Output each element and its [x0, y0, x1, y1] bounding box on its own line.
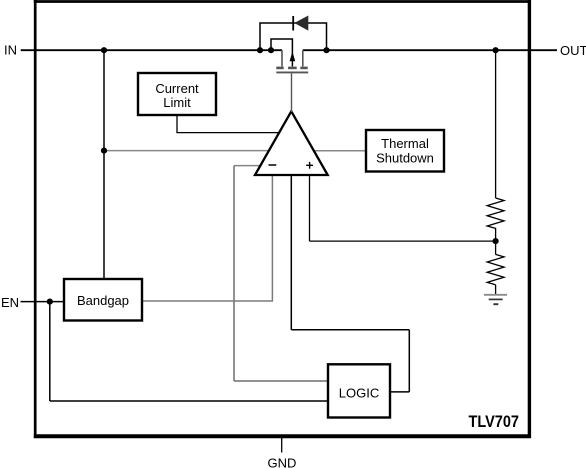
wire: EN lead into Bandgap left: [21, 301, 67, 303]
box: Current Limit: [138, 73, 216, 115]
svg-text:IN: IN: [4, 43, 17, 58]
wire: Bandgap output to inverting input: [141, 300, 273, 302]
wire: OUT rail from FET drain through border to OUT pin: [303, 49, 557, 51]
wire: feedback from divider midpoint to non-inverting input: [310, 240, 496, 242]
drain down-lead: [302, 50, 304, 66]
wire: amp output horizontal toward LOGIC: [291, 329, 409, 331]
svg-text:Bandgap: Bandgap: [77, 293, 129, 308]
svg-text:Limit: Limit: [163, 95, 191, 110]
junction dot IN branch to amp: [101, 148, 107, 154]
wire: error amp right edge to Thermal Shutdown: [313, 150, 368, 152]
svg-text:OUT: OUT: [560, 43, 586, 58]
plus input label: [306, 164, 313, 166]
bulk arrow: [290, 52, 296, 62]
channel contact segments: [276, 67, 283, 70]
wire: EN branch horizontal into LOGIC left lower pin: [50, 400, 330, 402]
svg-text:TLV707: TLV707: [469, 412, 520, 431]
junction dot EN branch: [47, 299, 53, 305]
wire: amp bottom output down: [290, 174, 292, 330]
transistor Q1 (PMOS pass element): [271, 39, 308, 112]
svg-text:EN: EN: [1, 295, 19, 310]
wire: horizontal into LOGIC left upper pin: [234, 380, 330, 382]
box: LOGIC: [328, 364, 390, 417]
svg-text:LOGIC: LOGIC: [339, 385, 379, 400]
wire: R2 bottom to ground: [495, 285, 497, 295]
svg-text:Shutdown: Shutdown: [376, 151, 434, 166]
svg-text:Current: Current: [155, 81, 199, 96]
wire: vertical branch from IN rail down to Bandgap top: [103, 50, 105, 282]
wire: Current Limit to error amp left edge: [176, 132, 280, 134]
wire: branch from IN node to error amp left edge: [104, 150, 268, 152]
gate plate: [276, 71, 308, 73]
wire: error amp lower-left edge stub: [234, 165, 262, 167]
svg-text:GND: GND: [268, 456, 297, 468]
wire: non-inverting input vertical below amp: [309, 174, 311, 241]
resistor R2 (lower feedback resistor): [487, 254, 504, 284]
junction dot OUT rail branch: [493, 47, 499, 53]
junction dot diode loop left: [257, 47, 263, 53]
wire: EN branch vertical down: [49, 302, 51, 401]
box: Bandgap: [64, 279, 142, 321]
ground symbol at bottom of divider: [484, 295, 507, 304]
op-amp U1 (error amplifier): [255, 111, 328, 175]
box: Thermal Shutdown: [366, 130, 444, 172]
wire: between R1 and R2 through midpoint node: [495, 228, 497, 255]
wire: OUT branch down to feedback divider R1: [495, 50, 497, 198]
junction dot on IN rail at branch: [101, 47, 107, 53]
source down-lead: [281, 50, 283, 66]
device boundary border: [34, 0, 531, 438]
wire: down right of LOGIC: [408, 330, 410, 392]
wire: Current Limit output down: [176, 114, 178, 133]
junction dot bulk loop left: [268, 47, 274, 53]
wire: IN lead / input rail to pass FET source: [21, 49, 282, 51]
wire: inverting input vertical below amp: [271, 174, 273, 301]
wire: GND pin stub below border: [281, 437, 283, 453]
diode D1 (body diode) loop wire: [260, 23, 327, 50]
wire: vertical from amp lower-left stub down toward LOGIC: [233, 166, 235, 381]
wire: into LOGIC right pin: [388, 391, 409, 393]
bulk loop wire from source node: [271, 39, 292, 66]
resistor R1 (upper feedback resistor): [487, 198, 504, 228]
junction dot diode loop right: [323, 47, 329, 53]
minus input label: [269, 164, 277, 166]
diode D1 symbol: [293, 16, 308, 31]
gate lead down to amp output: [291, 73, 293, 112]
junction dot feedback divider midpoint: [493, 238, 499, 244]
svg-text:Thermal: Thermal: [381, 136, 429, 151]
